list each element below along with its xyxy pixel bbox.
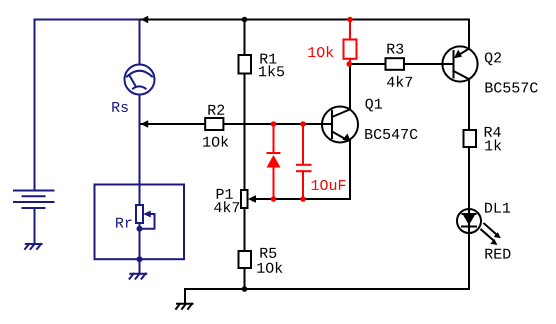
label 4k7: [387, 76, 412, 87]
Q1 emitter arrow: [343, 134, 352, 143]
resistor R3: [386, 58, 405, 70]
Q2 emitter arrow: [454, 50, 462, 59]
wire wiper row to Q1 emitter: [256, 198, 351, 200]
wire R1 bottom to P1 top: [244, 74, 246, 191]
node box bottom junction: [137, 256, 143, 262]
label Q1: [365, 99, 382, 112]
label Rr: [116, 218, 131, 228]
P1 wiper arrow: [248, 195, 256, 203]
wire R1 top: [244, 20, 246, 56]
ground (battery): [25, 244, 42, 249]
DL1 triangle: [463, 214, 476, 225]
diode top wire (red): [273, 124, 275, 153]
label R3: [387, 44, 403, 54]
wire right rail down to Q2 emitter: [468, 20, 470, 49]
wire Q1 emitter down: [349, 141, 351, 200]
resistor R2: [205, 118, 223, 130]
node top rail / R1: [242, 17, 248, 23]
ground (bottom rail): [176, 289, 193, 309]
wire base row: [141, 123, 332, 125]
resistor 10k (red): [344, 40, 357, 59]
label 10k: [308, 46, 333, 57]
wire Q2 collector down to R4: [468, 79, 470, 130]
LED DL1: [457, 209, 481, 233]
wire red 10k top: [349, 20, 351, 40]
node top rail / 10k (red): [347, 17, 353, 23]
node base row / capacitor: [300, 121, 306, 127]
label R2: [208, 105, 224, 115]
wire Q1 collector up: [349, 64, 351, 109]
label R4: [485, 127, 501, 137]
label BC557C: [485, 82, 537, 92]
wire R5 bottom: [244, 268, 246, 289]
resistor R4: [464, 130, 477, 147]
transistor Q2 BC557C (PNP): [442, 46, 477, 81]
transistor Q1 BC547C (NPN): [322, 107, 358, 143]
resistor R5: [239, 251, 252, 268]
diode triangle: [267, 155, 281, 168]
label R5: [260, 248, 276, 258]
label P1: [217, 189, 233, 199]
wire top rail: [141, 19, 469, 21]
wire Rr bottom: [139, 223, 141, 259]
diode cathode bar: [268, 152, 280, 154]
box around Rr: [95, 185, 185, 260]
capacitor top wire (red): [302, 124, 304, 165]
node wiper row / capacitor: [300, 196, 306, 202]
capacitor bottom wire: [302, 171, 304, 199]
wire blue rail: battery to meter column: [35, 20, 140, 191]
label Rs: [112, 102, 128, 112]
node base row / diode: [271, 121, 277, 127]
node wiper row / diode: [271, 196, 277, 202]
resistor R1: [239, 55, 252, 74]
wire meter column lower: [139, 95, 141, 206]
label 10k: [203, 136, 228, 147]
label 10k: [257, 262, 282, 273]
node R3 / 10k / Q1 collector (red): [347, 61, 353, 67]
node Rr wiper junction: [137, 226, 143, 232]
label Q2: [485, 52, 501, 65]
DL1 light arrow 1: [484, 224, 497, 235]
label 4k7: [214, 201, 239, 212]
capacitor plates: [297, 165, 311, 171]
Rr wiper arrow: [143, 211, 151, 218]
ground (Rr): [130, 259, 147, 279]
label R1: [260, 54, 276, 64]
wire P1 bottom to R5: [244, 208, 246, 251]
potentiometer Rr: [136, 205, 155, 229]
wire bottom rail: [185, 288, 469, 290]
arrow to Rs net (base row): [141, 120, 149, 128]
diode bottom wire: [273, 168, 275, 200]
node bottom rail / R5: [242, 286, 248, 292]
label 1k5: [259, 65, 284, 76]
label RED: [485, 249, 510, 259]
label BC547C: [365, 129, 417, 139]
arrow to Rs net (top rail): [141, 16, 149, 24]
battery B1: [14, 191, 54, 245]
potentiometer P1: [241, 190, 248, 208]
meter Rs: [125, 65, 155, 95]
DL1 light arrow 2: [481, 230, 494, 241]
wire R3 row: [350, 63, 454, 65]
wire red 10k bottom: [349, 59, 351, 64]
label DL1: [485, 203, 510, 213]
wire R4 bottom to DL1: [468, 147, 470, 289]
label 10uF: [312, 180, 346, 190]
label 1k: [485, 140, 501, 151]
wire meter column upper: [139, 20, 141, 65]
